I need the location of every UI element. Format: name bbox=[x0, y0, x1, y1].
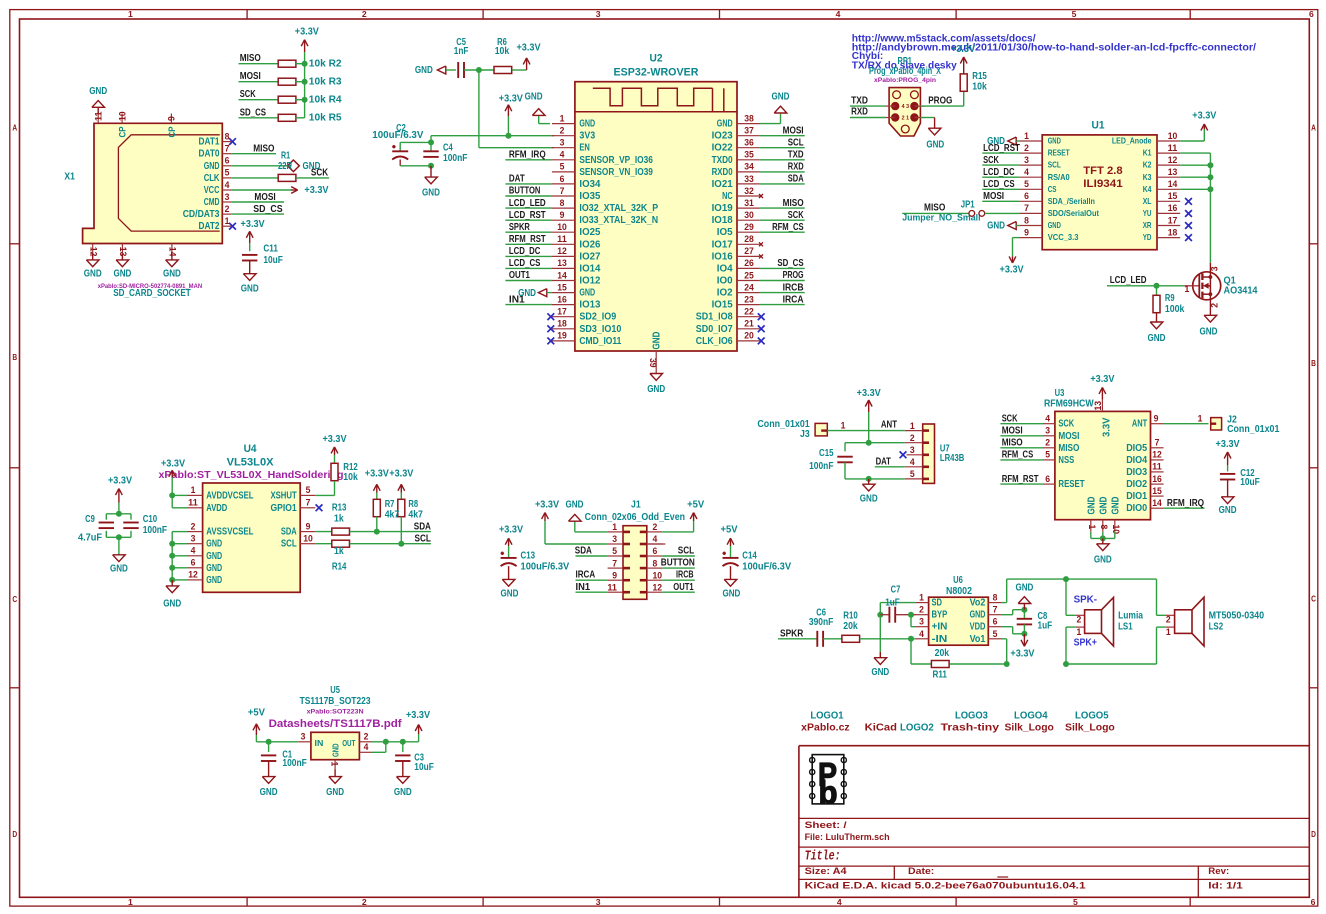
svg-text:5: 5 bbox=[1072, 9, 1077, 19]
no-connects U1 pins 15-18 bbox=[1185, 198, 1192, 205]
svg-text:3: 3 bbox=[910, 445, 915, 455]
U2 left side local labels bbox=[505, 159, 552, 161]
svg-text:100uF/6.3V: 100uF/6.3V bbox=[372, 130, 424, 141]
svg-text:SCK: SCK bbox=[1002, 414, 1018, 425]
svg-text:J3: J3 bbox=[800, 429, 810, 440]
svg-text:+3.3V: +3.3V bbox=[108, 476, 133, 487]
svg-text:TXD: TXD bbox=[788, 150, 804, 161]
svg-text:6: 6 bbox=[1024, 191, 1029, 201]
svg-text:4k7: 4k7 bbox=[385, 509, 400, 520]
label SPKR input bbox=[778, 638, 817, 640]
PROG connector holes bbox=[893, 91, 901, 99]
svg-text:4: 4 bbox=[1045, 414, 1050, 424]
svg-text:13: 13 bbox=[1093, 401, 1103, 411]
svg-text:4: 4 bbox=[225, 180, 230, 190]
X1 inner card outline bbox=[118, 135, 219, 231]
svg-text:+3.3V: +3.3V bbox=[1216, 439, 1241, 450]
svg-text:IO4: IO4 bbox=[717, 263, 733, 274]
3V3 rail wire bbox=[431, 135, 554, 137]
svg-text:10k R3: 10k R3 bbox=[309, 77, 342, 88]
svg-text:TS1117B_SOT223: TS1117B_SOT223 bbox=[300, 696, 372, 707]
U5 pin2 OUT bbox=[359, 741, 372, 743]
svg-text:1: 1 bbox=[1087, 525, 1097, 530]
wire to GND below PROG connector bbox=[920, 117, 934, 119]
svg-text:11: 11 bbox=[607, 582, 617, 592]
svg-text:6: 6 bbox=[1309, 9, 1314, 19]
svg-text:SCL: SCL bbox=[281, 539, 297, 550]
svg-text:K4: K4 bbox=[1143, 185, 1152, 194]
svg-text:10: 10 bbox=[1168, 131, 1178, 141]
svg-text:14: 14 bbox=[1152, 498, 1162, 508]
U6 pin6 VDD wire bbox=[1001, 626, 1013, 628]
U2 right pins bbox=[737, 123, 760, 125]
U1 left labels LCD_RST SCK LCD_DC LCD_CS MOSI bbox=[982, 152, 1019, 154]
svg-text:IRCB: IRCB bbox=[783, 282, 804, 293]
U1 pin9 VCC to +3.3V down bbox=[1013, 237, 1020, 239]
svg-text:1uF: 1uF bbox=[1038, 621, 1053, 632]
svg-text:2: 2 bbox=[1077, 614, 1082, 624]
J1 pin 8 bbox=[647, 567, 662, 569]
svg-text:GND: GND bbox=[1094, 554, 1112, 565]
capacitor C6 390nF bbox=[816, 631, 818, 647]
U6 pin 2 bbox=[916, 614, 929, 616]
power +3.3V right arrow at X1 pin4 bbox=[291, 189, 298, 191]
svg-text:File: LuluTherm.sch: File: LuluTherm.sch bbox=[805, 832, 890, 842]
svg-text:GND: GND bbox=[241, 284, 259, 295]
svg-text:2: 2 bbox=[1045, 438, 1050, 448]
svg-text:3: 3 bbox=[1045, 426, 1050, 436]
svg-text:3: 3 bbox=[191, 534, 196, 544]
svg-text:MOSI: MOSI bbox=[783, 125, 804, 136]
svg-text:39: 39 bbox=[648, 358, 658, 368]
svg-text:5: 5 bbox=[1073, 897, 1078, 907]
svg-text:12: 12 bbox=[557, 246, 567, 256]
svg-text:IN1: IN1 bbox=[576, 582, 591, 593]
U3 right pin 9 ANT bbox=[1151, 423, 1164, 425]
U7 pin2 wire bbox=[845, 442, 905, 444]
svg-text:31: 31 bbox=[744, 198, 754, 208]
svg-text:+3.3V: +3.3V bbox=[406, 710, 431, 721]
svg-text:1: 1 bbox=[560, 113, 565, 123]
svg-text:1: 1 bbox=[919, 593, 924, 603]
svg-text:14: 14 bbox=[168, 247, 178, 257]
svg-text:GND: GND bbox=[204, 161, 220, 172]
GND flag above X1 pin 11 bbox=[97, 107, 99, 113]
svg-text:DIO2: DIO2 bbox=[1126, 479, 1147, 490]
svg-text:RFM69HCW: RFM69HCW bbox=[1044, 398, 1094, 409]
svg-text:-IN: -IN bbox=[932, 634, 948, 645]
svg-text:GND: GND bbox=[89, 86, 107, 97]
svg-text:29: 29 bbox=[744, 222, 754, 232]
svg-text:4: 4 bbox=[364, 742, 369, 752]
svg-text:5: 5 bbox=[306, 485, 311, 495]
svg-text:9: 9 bbox=[612, 570, 617, 580]
svg-text:K3: K3 bbox=[1143, 173, 1152, 182]
svg-text:+3.3V: +3.3V bbox=[951, 44, 976, 55]
svg-text:RFM_IRQ: RFM_IRQ bbox=[509, 150, 546, 161]
svg-text:xPablo:ST_VL53L0X_HandSolderin: xPablo:ST_VL53L0X_HandSoldering bbox=[159, 470, 344, 481]
connector J2 Conn_01x01 bbox=[1211, 418, 1222, 430]
wire RXD bbox=[850, 117, 886, 119]
svg-text:15: 15 bbox=[557, 282, 567, 292]
svg-text:LOGO3: LOGO3 bbox=[955, 711, 989, 722]
svg-text:RXD0: RXD0 bbox=[712, 167, 733, 178]
svg-text:LR43B: LR43B bbox=[940, 453, 964, 464]
svg-text:Trash-tiny: Trash-tiny bbox=[941, 722, 1000, 733]
+3.3V down arrow below C8 bbox=[1023, 634, 1025, 647]
U3 top pin 13 3.3V bbox=[1101, 399, 1103, 411]
svg-text:GND: GND bbox=[717, 119, 733, 130]
svg-text:LCD_LED: LCD_LED bbox=[1110, 275, 1147, 286]
no-connect X1 pin 8 bbox=[229, 138, 236, 145]
svg-text:Size: A4: Size: A4 bbox=[805, 866, 848, 876]
wire BYP node to +IN bbox=[910, 615, 912, 627]
svg-text:SENSOR_VN_IO39: SENSOR_VN_IO39 bbox=[579, 167, 653, 178]
U6 pin 1 bbox=[916, 602, 929, 604]
svg-text:BYP: BYP bbox=[932, 610, 948, 621]
svg-text:LCD_CS: LCD_CS bbox=[509, 258, 541, 269]
svg-text:100nF: 100nF bbox=[143, 525, 167, 536]
speaker LS2 MT5050-0340 bbox=[1156, 579, 1158, 615]
svg-text:9: 9 bbox=[306, 521, 311, 531]
svg-text:SCL: SCL bbox=[788, 137, 804, 148]
svg-text:4: 4 bbox=[836, 9, 841, 19]
svg-text:RESET: RESET bbox=[1058, 479, 1084, 490]
wire MISO to R2 bbox=[239, 63, 279, 65]
resistor R2 10k bbox=[278, 60, 296, 67]
svg-text:LCD_CS: LCD_CS bbox=[983, 179, 1015, 190]
svg-text:GND: GND bbox=[163, 599, 181, 610]
svg-text:12: 12 bbox=[653, 582, 663, 592]
svg-text:TFT 2.8: TFT 2.8 bbox=[1083, 165, 1122, 177]
svg-text:LOGO1: LOGO1 bbox=[810, 711, 844, 722]
U1 pin8 GND flag bbox=[1008, 222, 1016, 230]
svg-text:LOGO2: LOGO2 bbox=[900, 722, 934, 733]
svg-text:15: 15 bbox=[1152, 486, 1162, 496]
svg-text:DAT0: DAT0 bbox=[199, 149, 220, 160]
svg-text:2: 2 bbox=[910, 433, 915, 443]
svg-text:24: 24 bbox=[744, 282, 754, 292]
svg-text:1: 1 bbox=[1166, 627, 1171, 637]
svg-text:GND: GND bbox=[1015, 583, 1033, 594]
svg-text:MOSI: MOSI bbox=[240, 71, 261, 82]
svg-text:23: 23 bbox=[744, 294, 754, 304]
svg-text:SDO/SerialOut: SDO/SerialOut bbox=[1048, 209, 1100, 218]
J1 pin2 to +5V bbox=[662, 531, 693, 533]
connector U7 LR43B body bbox=[923, 424, 935, 483]
svg-text:BUTTON: BUTTON bbox=[509, 186, 541, 197]
svg-text:Lumia: Lumia bbox=[1118, 610, 1143, 621]
svg-text:SPKR: SPKR bbox=[780, 628, 803, 639]
svg-text:Prog_xPablo_4pin_X: Prog_xPablo_4pin_X bbox=[869, 66, 941, 77]
GND arrow symbol X1 pin6 bbox=[288, 160, 300, 172]
svg-text:10: 10 bbox=[653, 570, 663, 580]
svg-text:IO27: IO27 bbox=[579, 251, 600, 262]
wire TXD bbox=[850, 105, 886, 107]
svg-text:AVDD: AVDD bbox=[206, 503, 227, 514]
svg-text:GND: GND bbox=[331, 743, 340, 757]
svg-text:+3.3V: +3.3V bbox=[365, 468, 390, 479]
svg-text:IO22: IO22 bbox=[712, 143, 733, 154]
svg-text:B: B bbox=[1311, 358, 1316, 368]
svg-text:D: D bbox=[1311, 829, 1316, 839]
capacitor C1 100nF bbox=[268, 742, 270, 752]
+3.3V power on 3V3 rail bbox=[507, 105, 509, 117]
U6 Vo2 wire up to top rail bbox=[1001, 602, 1007, 604]
svg-text:IO26: IO26 bbox=[579, 239, 601, 250]
svg-text:GND: GND bbox=[1148, 333, 1166, 344]
svg-text:8: 8 bbox=[1099, 525, 1109, 530]
svg-text:Title:: Title: bbox=[805, 850, 841, 865]
svg-text:11: 11 bbox=[1152, 462, 1162, 472]
svg-text:SDA: SDA bbox=[575, 546, 592, 557]
svg-text:100uF/6.3V: 100uF/6.3V bbox=[742, 562, 791, 573]
svg-text:6: 6 bbox=[191, 558, 196, 568]
svg-text:IO21: IO21 bbox=[712, 179, 734, 190]
GND flag left of C5 bbox=[437, 66, 445, 74]
svg-text:GND: GND bbox=[566, 500, 584, 511]
svg-text:R11: R11 bbox=[932, 670, 947, 681]
svg-text:CP: CP bbox=[118, 126, 128, 137]
J1 pin 7 bbox=[608, 567, 623, 569]
small no-connect x pins 32 28 27 bbox=[759, 194, 763, 198]
svg-text:+3.3V: +3.3V bbox=[499, 525, 524, 536]
svg-text:+3.3V: +3.3V bbox=[499, 94, 524, 105]
svg-text:N8002: N8002 bbox=[946, 586, 972, 597]
svg-text:IO33_XTAL_32K_N: IO33_XTAL_32K_N bbox=[579, 215, 658, 226]
svg-text:+3.3V: +3.3V bbox=[161, 458, 186, 469]
svg-text:3: 3 bbox=[919, 617, 924, 627]
svg-text:20k: 20k bbox=[935, 648, 950, 659]
svg-text:IRCB: IRCB bbox=[676, 570, 694, 581]
svg-text:13: 13 bbox=[1168, 167, 1178, 177]
U6 Vo1 wire down bbox=[1001, 638, 1007, 640]
svg-text:20k: 20k bbox=[843, 621, 858, 632]
svg-text:8: 8 bbox=[225, 131, 230, 141]
IC U4 VL53L0X body bbox=[203, 483, 301, 592]
svg-text:17: 17 bbox=[557, 307, 567, 317]
svg-text:7: 7 bbox=[225, 144, 230, 154]
svg-text:100uF/6.3V: 100uF/6.3V bbox=[521, 562, 570, 573]
svg-text:38: 38 bbox=[744, 113, 754, 123]
svg-text:U5: U5 bbox=[330, 685, 340, 696]
svg-text:16: 16 bbox=[1152, 474, 1162, 484]
svg-text:MOSI: MOSI bbox=[983, 191, 1004, 202]
svg-text:12: 12 bbox=[1168, 155, 1178, 165]
capacitor C5 1nF bbox=[457, 62, 459, 78]
svg-text:MOSI: MOSI bbox=[254, 192, 276, 203]
svg-text:26: 26 bbox=[744, 258, 754, 268]
svg-text:GND: GND bbox=[206, 551, 222, 562]
svg-text:Datasheets/TS1117B.pdf: Datasheets/TS1117B.pdf bbox=[269, 718, 402, 730]
svg-text:SDA: SDA bbox=[281, 527, 297, 538]
svg-text:10k: 10k bbox=[972, 82, 987, 93]
svg-text:RFM_RST: RFM_RST bbox=[509, 234, 546, 245]
wire VCC X1 pin 4 to +3.3V bbox=[231, 189, 291, 191]
J1 pin 3 bbox=[608, 543, 623, 545]
svg-text:11: 11 bbox=[1168, 143, 1178, 153]
svg-text:SD: SD bbox=[932, 598, 943, 609]
svg-text:2: 2 bbox=[191, 521, 196, 531]
svg-text:10k R5: 10k R5 bbox=[309, 113, 342, 124]
feedback path to R11 bbox=[910, 639, 912, 664]
svg-text:+3.3V: +3.3V bbox=[295, 26, 320, 37]
U6 pin 3 bbox=[916, 626, 929, 628]
svg-text:AVDDVCSEL: AVDDVCSEL bbox=[206, 490, 253, 501]
svg-text:4: 4 bbox=[837, 897, 842, 907]
svg-text:SPK-: SPK- bbox=[1074, 595, 1097, 606]
wire R6 to +3.3V bbox=[512, 69, 527, 71]
svg-text:C13: C13 bbox=[521, 550, 536, 561]
no-connects U2 pins 22 21 20 bbox=[758, 313, 765, 320]
svg-text:10: 10 bbox=[1111, 525, 1121, 535]
junction at C4 bottom bbox=[428, 163, 434, 169]
rail down to C2/C4 bbox=[430, 136, 432, 152]
svg-text:JP1: JP1 bbox=[961, 200, 975, 211]
svg-text:IO25: IO25 bbox=[579, 227, 601, 238]
svg-text:14: 14 bbox=[1168, 179, 1178, 189]
svg-text:SD3_IO10: SD3_IO10 bbox=[579, 324, 621, 335]
svg-text:DIO5: DIO5 bbox=[1126, 443, 1148, 454]
svg-text:GND: GND bbox=[1048, 221, 1061, 230]
resistor R3 10k bbox=[278, 78, 296, 85]
svg-text:DAT1: DAT1 bbox=[199, 137, 221, 148]
capacitor C7 1uF bbox=[880, 614, 889, 616]
svg-text:GND: GND bbox=[1098, 497, 1109, 515]
svg-text:10: 10 bbox=[117, 111, 127, 121]
svg-text:DAT: DAT bbox=[509, 174, 525, 185]
svg-text:3: 3 bbox=[560, 138, 565, 148]
J1 pin 4 bbox=[647, 543, 662, 545]
wire SD_CS to R5 bbox=[239, 117, 279, 119]
svg-text:GND: GND bbox=[206, 563, 222, 574]
svg-text:RXD: RXD bbox=[851, 107, 868, 118]
svg-text:+3.3V: +3.3V bbox=[1010, 649, 1035, 660]
svg-text:KiCad E.D.A. kicad 5.0.2-bee7: KiCad E.D.A. kicad 5.0.2-bee76a070ubuntu… bbox=[805, 881, 1086, 891]
svg-text:IO14: IO14 bbox=[579, 263, 601, 274]
junction at C4 top bbox=[428, 139, 434, 145]
svg-text:19: 19 bbox=[557, 331, 567, 341]
svg-text:U1: U1 bbox=[1092, 119, 1105, 131]
svg-text:SD_CS: SD_CS bbox=[240, 107, 267, 118]
svg-text:35: 35 bbox=[744, 150, 754, 160]
svg-text:SENSOR_VP_IO36: SENSOR_VP_IO36 bbox=[579, 155, 653, 166]
svg-text:IO15: IO15 bbox=[712, 300, 734, 311]
svg-text:GND: GND bbox=[206, 575, 222, 586]
svg-text:XL: XL bbox=[1143, 197, 1152, 206]
svg-text:1: 1 bbox=[1185, 284, 1190, 294]
svg-text:LCD_RST: LCD_RST bbox=[509, 210, 546, 221]
svg-text:1: 1 bbox=[1198, 414, 1203, 424]
svg-text:+3.3V: +3.3V bbox=[857, 388, 882, 399]
svg-text:Vo1: Vo1 bbox=[970, 634, 986, 645]
J1 pin 5 bbox=[608, 555, 623, 557]
svg-text:LED_Anode: LED_Anode bbox=[1112, 137, 1152, 146]
wire CLK from X1 pin 5 to R1 bbox=[231, 177, 278, 179]
svg-text:GND: GND bbox=[1086, 497, 1097, 515]
svg-text:6: 6 bbox=[993, 617, 998, 627]
svg-text:100nF: 100nF bbox=[282, 758, 306, 769]
svg-text:MOSI: MOSI bbox=[1058, 431, 1079, 442]
svg-text:GND: GND bbox=[415, 65, 433, 76]
svg-text:MISO: MISO bbox=[253, 143, 275, 154]
U2 antenna drawing bbox=[575, 111, 737, 113]
svg-text:MISO: MISO bbox=[1058, 443, 1079, 454]
svg-text:ESP32-WROVER: ESP32-WROVER bbox=[614, 67, 699, 79]
svg-text:4: 4 bbox=[1024, 167, 1029, 177]
svg-text:15: 15 bbox=[1168, 191, 1178, 201]
svg-text:IO19: IO19 bbox=[712, 203, 734, 214]
svg-text:MISO: MISO bbox=[783, 198, 804, 209]
svg-text:+3.3V: +3.3V bbox=[1090, 374, 1115, 385]
J1 pin1 to GND flag bbox=[575, 531, 608, 533]
svg-text:2: 2 bbox=[362, 897, 367, 907]
J1 pin 1 bbox=[608, 531, 623, 533]
svg-text:TXD0: TXD0 bbox=[712, 155, 733, 166]
svg-text:U2: U2 bbox=[650, 53, 663, 65]
svg-text:SCK: SCK bbox=[983, 155, 999, 166]
svg-text:DIO4: DIO4 bbox=[1126, 455, 1148, 466]
svg-text:VCC_3.3: VCC_3.3 bbox=[1048, 233, 1079, 242]
svg-text:GND: GND bbox=[579, 288, 595, 299]
svg-text:IO16: IO16 bbox=[712, 251, 734, 262]
svg-text:MT5050-0340: MT5050-0340 bbox=[1209, 610, 1265, 621]
svg-text:5: 5 bbox=[1045, 450, 1050, 460]
svg-text:GND: GND bbox=[871, 667, 889, 678]
svg-text:5: 5 bbox=[1024, 179, 1029, 189]
svg-text:4: 4 bbox=[653, 534, 658, 544]
capacitor C3 10uF bbox=[400, 739, 406, 745]
svg-text:KiCad: KiCad bbox=[865, 722, 897, 733]
svg-text:100nF: 100nF bbox=[443, 153, 467, 164]
svg-text:SD0_IO7: SD0_IO7 bbox=[696, 324, 733, 335]
svg-text:13: 13 bbox=[557, 258, 567, 268]
svg-text:SDA: SDA bbox=[414, 521, 431, 532]
svg-text:32: 32 bbox=[744, 186, 754, 196]
capacitor C2 polarized 100uF/6.3V bbox=[392, 150, 408, 152]
wire MOSI to R3 bbox=[239, 81, 279, 83]
Q1 source to GND bbox=[1209, 294, 1211, 315]
U3 DIO pins bbox=[1151, 447, 1164, 449]
svg-text:3: 3 bbox=[1024, 155, 1029, 165]
resistor R15 10k bbox=[963, 91, 965, 106]
svg-text:5: 5 bbox=[560, 162, 565, 172]
resistor R4 10k bbox=[278, 96, 296, 103]
wire SD_CS X1 pin2 bbox=[231, 213, 284, 215]
svg-text:8: 8 bbox=[993, 593, 998, 603]
jumper JP1 at U1 pin7 bbox=[902, 212, 969, 214]
svg-text:1: 1 bbox=[841, 420, 846, 430]
svg-text:1uF: 1uF bbox=[885, 597, 900, 608]
no-connect U7 pin3 bbox=[900, 451, 907, 458]
svg-text:+3.3V: +3.3V bbox=[535, 500, 560, 511]
svg-text:Date:: Date: bbox=[908, 866, 934, 876]
svg-text:MOSI: MOSI bbox=[1002, 426, 1023, 437]
svg-text:IO23: IO23 bbox=[712, 131, 734, 142]
speaker LS1 Lumia bbox=[1063, 576, 1069, 582]
svg-text:SCL: SCL bbox=[678, 546, 694, 557]
IC U3 RFM69HCW body bbox=[1055, 411, 1151, 519]
svg-text:IO34: IO34 bbox=[579, 179, 601, 190]
svg-text:8: 8 bbox=[1024, 215, 1029, 225]
svg-text:+3.3V: +3.3V bbox=[1192, 110, 1217, 121]
svg-text:LOGO5: LOGO5 bbox=[1075, 711, 1109, 722]
svg-text:GND: GND bbox=[260, 787, 278, 798]
X1 bottom pins 12 13 14 with GND bbox=[92, 244, 94, 254]
svg-text:3: 3 bbox=[596, 9, 601, 19]
svg-text:PROG: PROG bbox=[928, 95, 952, 106]
svg-text:390nF: 390nF bbox=[809, 617, 833, 628]
